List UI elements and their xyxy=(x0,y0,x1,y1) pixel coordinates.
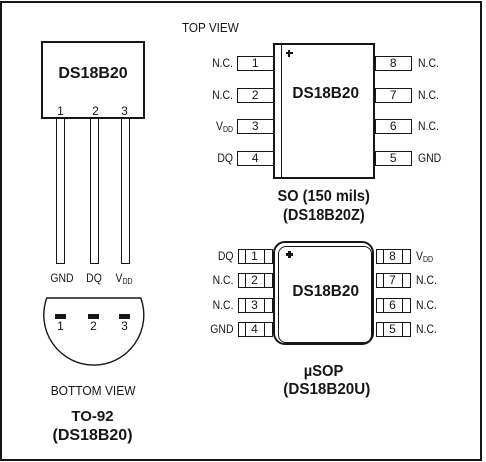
SO pin 6 box xyxy=(375,119,413,134)
SO pin 5 box xyxy=(375,151,413,166)
label DS18B20 (SO body) xyxy=(281,85,371,102)
label GND (pin 1) xyxy=(43,272,81,285)
SO pin 1 box xyxy=(237,56,275,71)
caption uSOP xyxy=(254,365,394,378)
uSOP label N.C. pin6 xyxy=(416,299,437,312)
uSOP label N.C. pin7 xyxy=(416,274,437,287)
SO plus mark xyxy=(286,50,293,57)
uSOP plus mark xyxy=(286,251,293,258)
uSOP pin 6 boxes xyxy=(376,298,384,313)
pin number 1 (TO-92 body) xyxy=(54,105,67,118)
SO pin 8 box xyxy=(375,56,413,71)
uSOP pin 5 boxes xyxy=(376,322,384,337)
SO inner left line xyxy=(281,44,282,177)
uSOP pin 3 boxes xyxy=(238,298,246,313)
uSOP label VDD pin8 xyxy=(416,250,433,264)
uSOP pin 2 boxes xyxy=(238,273,246,288)
SO pin 7 box xyxy=(375,88,413,103)
number 1 (bottom view) xyxy=(54,320,67,333)
pin number 2 (TO-92 body) xyxy=(89,105,102,118)
uSOP label N.C. pin2 xyxy=(172,274,233,287)
SO label N.C. pin1 xyxy=(172,57,233,70)
SO label VDD pin3 xyxy=(172,120,233,134)
uSOP label N.C. pin3 xyxy=(172,299,233,312)
caption (DS18B20U) xyxy=(257,383,397,396)
SO pin 2 box xyxy=(237,88,275,103)
uSOP pin 8 boxes xyxy=(376,249,384,264)
uSOP inner outline xyxy=(278,246,372,344)
caption (DS18B20Z) xyxy=(254,209,394,222)
label DS18B20 (TO-92 body) xyxy=(41,65,145,82)
uSOP pin 1 boxes xyxy=(238,249,246,264)
label VDD (pin 3) xyxy=(105,272,143,286)
SO label DQ pin4 xyxy=(172,152,233,165)
uSOP label DQ pin1 xyxy=(172,250,233,263)
tick pin 2 (bottom view) xyxy=(88,314,99,319)
uSOP label GND pin4 xyxy=(172,323,233,336)
SO label N.C. pin7 xyxy=(418,89,439,102)
caption (DS18B20) xyxy=(23,427,162,444)
caption SO (150 mils) xyxy=(254,190,394,203)
SO label GND pin5 xyxy=(418,152,441,165)
pin lead 1 (TO-92) xyxy=(56,119,65,264)
SO label N.C. pin8 xyxy=(418,57,439,70)
uSOP pin 7 boxes xyxy=(376,273,384,288)
uSOP outer body xyxy=(273,241,374,346)
tick pin 3 (bottom view) xyxy=(119,314,130,319)
SO pin 3 box xyxy=(237,119,275,134)
SO label N.C. pin6 xyxy=(418,120,439,133)
label DQ (pin 2) xyxy=(75,272,113,285)
label DS18B20 (uSOP body) xyxy=(281,283,371,300)
SO label N.C. pin2 xyxy=(172,89,233,102)
caption TOP VIEW xyxy=(182,21,245,34)
uSOP pin 4 boxes xyxy=(238,322,246,337)
pin lead 2 (TO-92) xyxy=(90,119,99,264)
tick pin 1 (bottom view) xyxy=(55,314,66,319)
pin number 3 (TO-92 body) xyxy=(118,105,131,118)
TO-92 package body xyxy=(41,41,145,119)
SO pin 4 box xyxy=(237,151,275,166)
pin lead 3 (TO-92) xyxy=(121,119,130,264)
number 3 (bottom view) xyxy=(118,320,131,333)
SO package body xyxy=(273,43,375,179)
number 2 (bottom view) xyxy=(87,320,100,333)
caption TO-92 xyxy=(23,410,162,423)
caption BOTTOM VIEW xyxy=(23,384,163,397)
TO-92 bottom-view outline xyxy=(38,292,150,370)
uSOP label N.C. pin5 xyxy=(416,323,437,336)
